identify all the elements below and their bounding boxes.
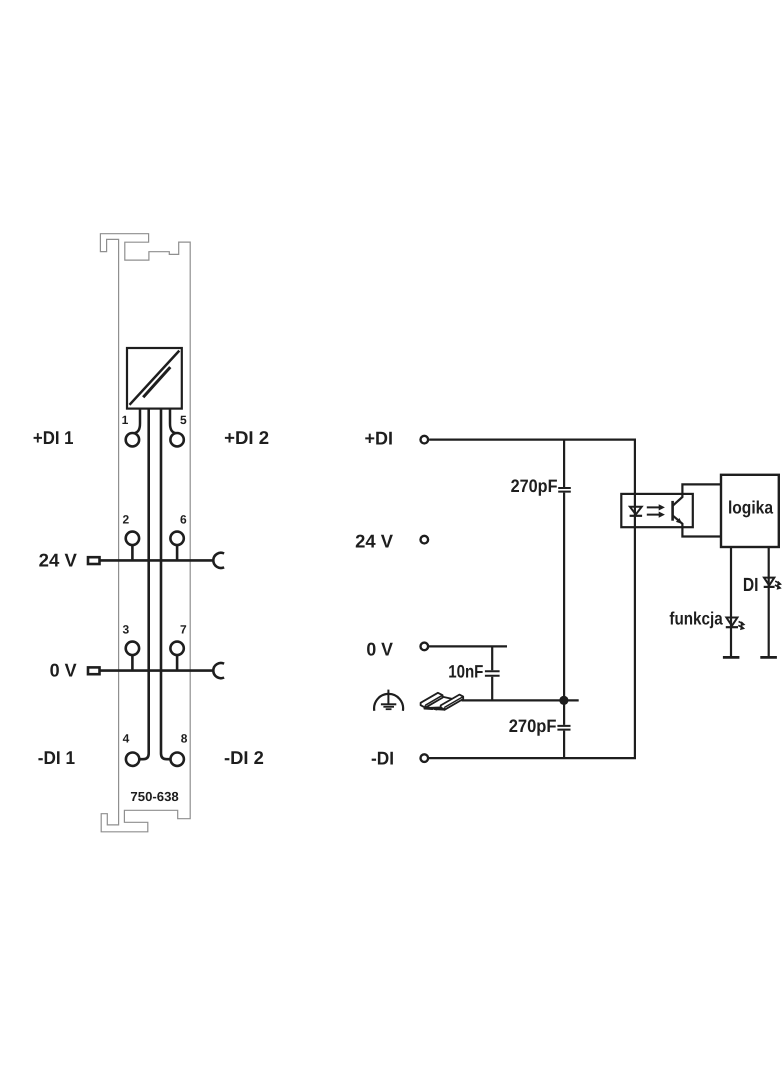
- svg-text:2: 2: [123, 513, 130, 527]
- svg-text:270pF: 270pF: [509, 716, 557, 736]
- svg-text:6: 6: [180, 513, 187, 527]
- svg-text:+DI: +DI: [365, 428, 394, 449]
- svg-text:8: 8: [181, 731, 188, 745]
- svg-text:0 V: 0 V: [50, 659, 78, 680]
- svg-text:logika: logika: [728, 498, 774, 518]
- svg-text:24 V: 24 V: [39, 549, 78, 570]
- svg-text:-DI: -DI: [371, 747, 394, 768]
- svg-text:4: 4: [123, 731, 130, 745]
- svg-text:-DI 1: -DI 1: [38, 747, 75, 768]
- svg-text:1: 1: [122, 413, 129, 427]
- svg-text:750-638: 750-638: [130, 789, 178, 804]
- svg-text:24 V: 24 V: [355, 531, 394, 552]
- svg-text:DI: DI: [743, 575, 759, 596]
- svg-text:270pF: 270pF: [511, 476, 558, 496]
- svg-text:funkcja: funkcja: [669, 609, 723, 629]
- svg-text:0 V: 0 V: [366, 638, 393, 659]
- svg-text:+DI 2: +DI 2: [224, 427, 269, 448]
- svg-text:-DI 2: -DI 2: [224, 747, 264, 768]
- svg-text:3: 3: [123, 623, 130, 637]
- svg-text:+DI 1: +DI 1: [33, 427, 74, 448]
- svg-text:7: 7: [180, 623, 187, 637]
- svg-text:5: 5: [180, 413, 187, 427]
- svg-text:10nF: 10nF: [448, 661, 483, 681]
